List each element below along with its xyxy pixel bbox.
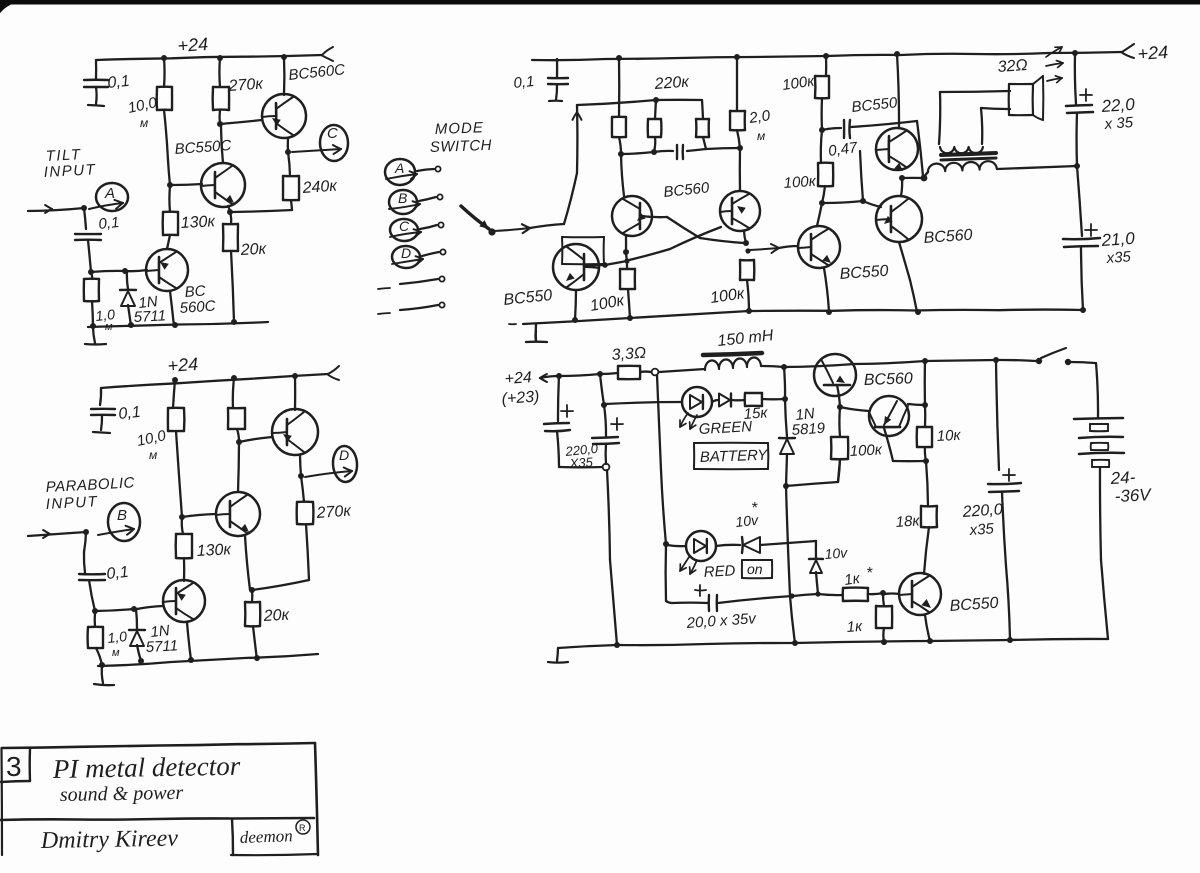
svg-text:*: * [866,565,873,582]
svg-text:MODE: MODE [435,119,485,138]
svg-text:100к: 100к [709,285,747,307]
svg-text:BC560C: BC560C [288,61,346,84]
svg-text:R: R [299,823,306,833]
svg-text:10,0: 10,0 [135,427,168,450]
svg-text:22,0: 22,0 [1100,95,1136,116]
svg-text:C: C [327,125,338,142]
svg-text:sound & power: sound & power [60,782,184,806]
svg-text:м: м [112,647,120,659]
svg-text:100к: 100к [849,441,883,460]
svg-text:RED: RED [703,562,736,581]
svg-text:BC560: BC560 [663,179,711,201]
svg-text:20,0 x 35v: 20,0 x 35v [685,610,758,632]
svg-text:deemon: deemon [239,826,293,847]
svg-text:2,0: 2,0 [747,107,772,127]
svg-text:x35: x35 [1105,248,1132,267]
svg-text:5819: 5819 [791,420,826,439]
svg-text:18к: 18к [895,512,921,531]
svg-text:A: A [104,185,115,202]
svg-text:INPUT: INPUT [43,161,97,181]
svg-text:220,0: 220,0 [961,501,1003,521]
svg-text:*: * [751,500,758,517]
svg-text:PI metal detector: PI metal detector [52,751,241,784]
svg-text:130к: 130к [180,213,217,232]
svg-text:5711: 5711 [145,637,178,656]
svg-text:м: м [149,448,157,462]
svg-text:D: D [339,447,349,463]
svg-text:+24: +24 [167,354,199,376]
svg-text:BC550: BC550 [503,287,554,309]
svg-text:BC550: BC550 [839,263,889,283]
svg-text:BC560: BC560 [923,227,973,247]
svg-text:on: on [747,561,763,577]
svg-text:B: B [398,190,407,206]
svg-text:0,1: 0,1 [107,73,131,92]
svg-text:BC560: BC560 [864,370,914,389]
svg-text:X35: X35 [568,454,594,471]
svg-text:24-: 24- [1109,468,1136,488]
svg-text:0,1: 0,1 [118,404,142,423]
svg-text:5711: 5711 [133,307,166,326]
svg-text:1к: 1к [846,618,863,636]
svg-text:-36V: -36V [1114,485,1153,506]
svg-text:3,3Ω: 3,3Ω [611,345,647,364]
svg-text:100к: 100к [783,173,817,192]
svg-text:21,0: 21,0 [1100,229,1136,250]
svg-text:+24: +24 [1137,42,1169,64]
svg-text:A: A [394,160,404,176]
svg-text:(+23): (+23) [501,388,540,408]
svg-text:м: м [140,116,148,130]
svg-text:0,1: 0,1 [513,73,536,92]
svg-text:0,1: 0,1 [106,564,130,583]
svg-text:BC550: BC550 [851,94,899,116]
svg-text:B: B [117,507,127,524]
svg-text:0,47: 0,47 [827,139,859,160]
svg-text:100к: 100к [781,73,816,94]
svg-text:BC550: BC550 [949,595,999,615]
svg-text:10,0: 10,0 [126,94,159,117]
svg-text:3: 3 [6,751,22,782]
svg-text:0,1: 0,1 [98,214,121,233]
svg-text:20к: 20к [239,241,268,259]
svg-text:130к: 130к [196,541,233,560]
svg-text:C: C [399,218,410,234]
svg-text:Dmitry Kireev: Dmitry Kireev [40,826,179,854]
svg-text:560C: 560C [179,298,216,317]
svg-text:150 mH: 150 mH [717,327,775,350]
svg-text:x 35: x 35 [1103,114,1134,133]
svg-text:10v: 10v [824,544,849,562]
svg-text:D: D [401,245,411,261]
svg-text:INPUT: INPUT [45,493,99,513]
svg-text:м: м [757,129,765,143]
svg-text:x35: x35 [968,520,995,539]
svg-text:240к: 240к [301,178,339,198]
svg-text:SWITCH: SWITCH [430,137,493,156]
svg-text:BATTERY: BATTERY [700,447,769,466]
svg-text:1к: 1к [843,570,862,589]
svg-text:15к: 15к [743,404,769,423]
svg-text:100к: 100к [589,292,627,315]
svg-text:270к: 270к [227,76,265,96]
svg-text:20к: 20к [262,607,291,625]
svg-text:+24: +24 [504,369,532,388]
svg-text:1,0: 1,0 [107,628,128,646]
svg-text:270к: 270к [315,503,353,523]
svg-text:+24: +24 [177,34,209,56]
svg-text:220к: 220к [653,74,691,94]
svg-text:32Ω: 32Ω [997,57,1028,76]
svg-text:10к: 10к [936,427,962,445]
